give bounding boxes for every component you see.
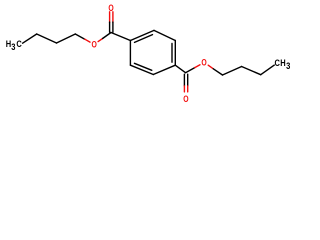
atom label CH3 methyl right <box>275 57 291 71</box>
svg-text:H: H <box>6 38 11 49</box>
svg-text:O: O <box>92 40 98 50</box>
wire bond carbonyl C to ring left <box>111 33 130 41</box>
benzene inner double-bond line C=D <box>171 44 173 63</box>
svg-text:H: H <box>280 57 285 68</box>
svg-text:C: C <box>16 38 21 49</box>
svg-text:C: C <box>275 57 280 68</box>
benzene ring edge C-D right <box>174 41 176 66</box>
wire bond CH2-O ester left (black half + red half) <box>75 34 85 39</box>
benzene ring edge E-F bottom-left <box>130 65 153 74</box>
svg-text:3: 3 <box>11 41 15 52</box>
wire bond CH2-CH2 right chain 2 <box>242 67 261 75</box>
wire bond CH2-CH2 right chain <box>223 67 242 76</box>
benzene ring edge F-A left <box>129 41 131 66</box>
wire bond CH2-CH3 butyl chain right <box>261 65 275 75</box>
benzene ring edge D-E bottom-right <box>153 65 175 74</box>
svg-text:O: O <box>201 58 207 68</box>
wire bond CH2-CH2 left chain 2 <box>57 34 76 43</box>
benzene inner double-bond line E=F <box>134 63 151 70</box>
benzene ring edge B-C top-right <box>154 30 175 40</box>
double bond C=O bottom right (two vertical lines, red lower half) <box>183 74 185 86</box>
wire bond H3C-CH2 butyl chain left <box>23 34 37 43</box>
svg-text:O: O <box>108 3 114 13</box>
svg-text:O: O <box>183 94 189 104</box>
wire bond carbonyl C-O ester right (black half + red half) <box>186 68 195 73</box>
svg-text:3: 3 <box>286 60 290 71</box>
wire bond O-C carbonyl left (red half + black half) <box>98 39 103 42</box>
double bond C=O top left (two vertical lines, red upper half) <box>109 12 111 22</box>
skeletal structure of dibutyl terephthalate <box>0 0 300 110</box>
atom label H3C methyl left <box>6 38 22 52</box>
wire bond ring to carbonyl C right <box>175 65 185 73</box>
benzene ring edge A-B top-left <box>130 30 154 40</box>
wire bond CH2-CH2 left chain <box>37 34 57 43</box>
wire bond O-CH2 right chain (red half + black half) <box>208 65 213 69</box>
benzene inner double-bond line A=B <box>135 35 153 43</box>
